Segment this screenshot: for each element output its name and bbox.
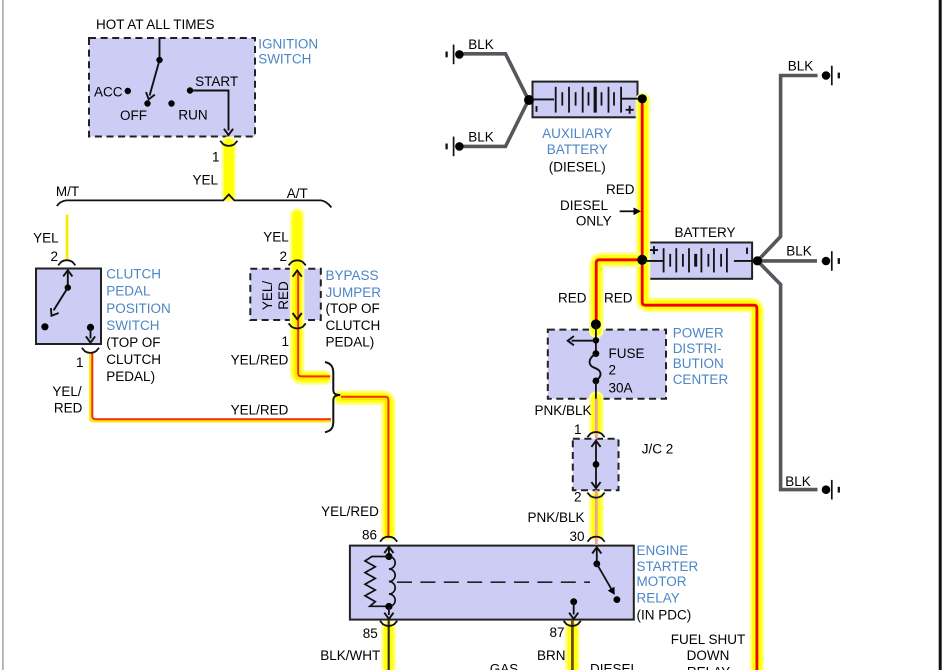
ignition switch box bbox=[89, 38, 255, 137]
fuse feed line bbox=[595, 324, 597, 353]
connector arc J/C 2 pin 1 bbox=[587, 432, 604, 437]
auxiliary battery negative terminal dot bbox=[524, 95, 534, 105]
svg-text:BLK: BLK bbox=[468, 129, 494, 144]
relay pin 30 line bbox=[596, 547, 598, 564]
svg-text:(TOP OF: (TOP OF bbox=[326, 301, 380, 316]
svg-text:ONLY: ONLY bbox=[576, 213, 612, 228]
relay armature dot bbox=[593, 560, 600, 567]
clutch pedal position switch box bbox=[36, 269, 101, 345]
svg-text:1: 1 bbox=[574, 422, 582, 437]
ignition switch OFF contact dot bbox=[144, 100, 150, 106]
svg-text:BLK: BLK bbox=[785, 474, 811, 489]
bypass jumper bottom arrowhead bbox=[293, 313, 302, 319]
svg-text:2: 2 bbox=[50, 249, 58, 264]
svg-text:OFF: OFF bbox=[120, 108, 147, 123]
svg-text:FUSE: FUSE bbox=[609, 346, 645, 361]
svg-text:BATTERY: BATTERY bbox=[547, 142, 608, 157]
svg-text:PEDAL): PEDAL) bbox=[326, 334, 375, 349]
svg-text:YEL/: YEL/ bbox=[260, 281, 275, 311]
battery plus sign bbox=[650, 246, 658, 254]
svg-text:1: 1 bbox=[76, 355, 84, 370]
fuse tap arrowhead left bbox=[568, 336, 574, 345]
wire: BRN from relay pin 87 bbox=[571, 620, 574, 670]
relay pin 87 arrowhead down bbox=[569, 613, 578, 619]
clutch switch pin 1 contact dot bbox=[87, 324, 94, 331]
connector arc clutch switch pin 2 bbox=[58, 260, 75, 265]
svg-text:M/T: M/T bbox=[56, 184, 79, 199]
relay armature arm bbox=[597, 564, 613, 591]
auxiliary battery box bbox=[533, 82, 638, 118]
connector arc bypass jumper pin 2 bbox=[289, 260, 306, 265]
highlight band: A/T YEL wire through bypass jumper bbox=[297, 216, 324, 378]
ground G2 (lower left) bbox=[447, 137, 464, 157]
wire: PNK/BLK fuse to J/C 2 bbox=[595, 399, 598, 439]
wire: A/T YEL/RED through bypass jumper, red strand bbox=[298, 272, 330, 376]
svg-text:MOTOR: MOTOR bbox=[637, 574, 687, 589]
highlight band: ignition output wire bbox=[222, 144, 237, 196]
svg-text:2: 2 bbox=[574, 489, 582, 504]
fuse element squiggle bbox=[590, 354, 601, 381]
svg-text:2: 2 bbox=[279, 249, 287, 264]
engine starter motor relay box bbox=[350, 546, 634, 620]
svg-text:START: START bbox=[195, 74, 238, 89]
clutch switch left contact dot bbox=[41, 323, 48, 330]
highlight band: relay pin 87 BRN wire bbox=[565, 628, 580, 670]
svg-text:POWER: POWER bbox=[673, 326, 724, 341]
svg-text:HOT AT ALL TIMES: HOT AT ALL TIMES bbox=[96, 17, 215, 32]
wire: ground G2 to auxiliary battery negative bbox=[464, 102, 528, 147]
wire: PNK/BLK J/C 2 to relay pin 30 bbox=[595, 490, 598, 545]
wire: battery positive to bottom right ground bbox=[758, 261, 818, 490]
battery negative lead bbox=[734, 260, 755, 262]
svg-text:DIESEL: DIESEL bbox=[590, 662, 639, 670]
clutch switch pin 2 arrowhead up bbox=[63, 270, 72, 276]
M/T A/T splice brace bbox=[57, 195, 332, 208]
bypass jumper box bbox=[250, 269, 320, 320]
wire: merged YEL/RED to relay pin 86, yellow strand bbox=[341, 399, 386, 538]
ignition switch movable arm bbox=[150, 63, 159, 96]
ground G1 (top left) bbox=[447, 45, 464, 65]
relay coil winding bumps bbox=[389, 557, 395, 607]
connector arc clutch switch pin 1 bbox=[82, 348, 99, 353]
svg-text:ACC: ACC bbox=[94, 85, 123, 100]
wire: merged YEL/RED to relay pin 86, red strand bbox=[341, 397, 388, 538]
connector arc relay pin 86 bbox=[380, 537, 397, 542]
junction connector J/C 2 box bbox=[573, 439, 619, 490]
connector arc relay pin 87 bbox=[564, 621, 581, 626]
auxiliary battery plus sign bbox=[626, 106, 634, 114]
ignition switch feed wire bbox=[159, 38, 161, 58]
svg-text:CLUTCH: CLUTCH bbox=[106, 352, 161, 367]
connector arc ignition pin 1 bbox=[220, 141, 237, 146]
DIESEL ONLY pointer arrowhead bbox=[634, 208, 642, 216]
highlight band: auxiliary battery RED wire down and right to fuel shutdown relay bbox=[643, 100, 757, 670]
bypass jumper top arrowhead bbox=[293, 271, 302, 277]
highlight band: merged YEL/RED wire to relay pin 86 bbox=[340, 398, 388, 534]
svg-text:PNK/BLK: PNK/BLK bbox=[534, 403, 591, 418]
battery plates bbox=[664, 248, 727, 272]
auxiliary battery positive terminal dot bbox=[638, 94, 647, 103]
highlight band: fuse output PNK/BLK to J/C 2 bbox=[589, 399, 604, 430]
svg-text:GAS: GAS bbox=[490, 662, 519, 670]
ground right middle bbox=[822, 251, 839, 271]
power distribution center box bbox=[548, 330, 666, 399]
fuse output line bbox=[595, 381, 597, 399]
ignition switch RUN contact dot bbox=[168, 100, 174, 106]
svg-text:BLK: BLK bbox=[788, 58, 814, 73]
ignition switch ACC contact dot bbox=[125, 88, 131, 94]
svg-text:(IN PDC): (IN PDC) bbox=[637, 607, 692, 622]
auxiliary battery plates bbox=[556, 87, 621, 113]
svg-text:RELAY: RELAY bbox=[687, 664, 730, 670]
clutch switch movable arm bbox=[54, 288, 68, 311]
battery box bbox=[647, 243, 752, 279]
svg-text:DOWN: DOWN bbox=[687, 648, 730, 663]
highlight band: relay pin 85 BLK/WHT wire bbox=[381, 628, 396, 670]
svg-text:YEL: YEL bbox=[33, 230, 59, 245]
wire: BLK/WHT from relay pin 85 bbox=[388, 620, 390, 670]
svg-text:JUMPER: JUMPER bbox=[326, 285, 382, 300]
wire: ground G1 to auxiliary battery negative bbox=[464, 54, 528, 99]
svg-text:BLK/WHT: BLK/WHT bbox=[320, 648, 380, 663]
svg-text:SWITCH: SWITCH bbox=[106, 318, 159, 333]
relay coil feed line bbox=[388, 547, 390, 557]
svg-text:BLK: BLK bbox=[786, 243, 812, 258]
relay coil resistor zigzag bbox=[365, 557, 389, 607]
svg-text:STARTER: STARTER bbox=[637, 559, 699, 574]
clutch switch arm arrowhead bbox=[48, 308, 59, 318]
wire: A/T YEL/RED through bypass jumper, yellow strand bbox=[296, 272, 330, 379]
fuse junction dot bbox=[591, 319, 601, 329]
svg-text:30A: 30A bbox=[609, 380, 633, 395]
ignition switch output arrowhead bbox=[224, 129, 233, 135]
svg-text:CLUTCH: CLUTCH bbox=[106, 267, 161, 282]
svg-text:YEL/: YEL/ bbox=[52, 384, 82, 399]
svg-text:BLK: BLK bbox=[468, 37, 494, 52]
auxiliary battery negative lead bbox=[531, 98, 554, 100]
svg-text:YEL: YEL bbox=[263, 230, 289, 245]
auxiliary battery minus tick bbox=[536, 106, 538, 112]
svg-text:PNK/BLK: PNK/BLK bbox=[527, 510, 584, 525]
svg-text:87: 87 bbox=[549, 625, 564, 640]
wire: YEL/RED from clutch switch pin 1, yellow strand bbox=[90, 353, 331, 421]
svg-text:BATTERY: BATTERY bbox=[674, 225, 735, 240]
clutch switch pin 1 wire bbox=[90, 327, 92, 338]
svg-text:RELAY: RELAY bbox=[637, 590, 680, 605]
relay divider dashed line bbox=[397, 581, 590, 583]
svg-text:YEL/RED: YEL/RED bbox=[231, 352, 289, 367]
svg-text:AUXILIARY: AUXILIARY bbox=[542, 126, 612, 141]
wire: battery positive to middle right ground bbox=[758, 259, 818, 263]
ground right top bbox=[822, 66, 839, 86]
relay coil bottom dot bbox=[385, 603, 392, 610]
ground right bottom bbox=[822, 480, 839, 500]
YEL/RED merge brace bbox=[325, 362, 340, 432]
fuse element bottom dot bbox=[593, 378, 600, 385]
relay armature arrowhead bbox=[608, 587, 618, 597]
svg-text:85: 85 bbox=[363, 626, 378, 641]
connector arc bypass jumper pin 1 bbox=[289, 323, 306, 328]
relay coil ground line bbox=[388, 607, 390, 616]
relay fixed contact dot bbox=[614, 596, 621, 603]
ignition switch START output wire bbox=[193, 91, 229, 131]
ignition switch rotor dot bbox=[156, 57, 162, 63]
svg-text:BYPASS: BYPASS bbox=[326, 268, 379, 283]
svg-text:86: 86 bbox=[362, 527, 377, 542]
auxiliary battery positive lead bbox=[621, 98, 640, 100]
relay coil top dot bbox=[385, 553, 392, 560]
svg-text:CLUTCH: CLUTCH bbox=[326, 318, 381, 333]
relay pin 87 line bbox=[573, 602, 575, 615]
svg-text:IGNITION: IGNITION bbox=[258, 37, 318, 52]
relay pin 30 arrowhead up bbox=[592, 547, 601, 553]
svg-text:CENTER: CENTER bbox=[673, 372, 729, 387]
svg-text:J/C 2: J/C 2 bbox=[642, 442, 674, 457]
wire: YEL stub M/T branch bbox=[66, 215, 69, 260]
fuse tap arrow line bbox=[572, 340, 596, 342]
clutch switch rotor dot bbox=[65, 284, 71, 290]
wire: RED branch battery to fuse junction bbox=[596, 260, 642, 322]
battery positive lead bbox=[644, 260, 664, 262]
svg-text:(TOP OF: (TOP OF bbox=[106, 335, 160, 350]
ignition switch arm arrowhead bbox=[144, 92, 155, 100]
page left border bbox=[2, 0, 4, 670]
fuse tap dot bbox=[593, 337, 599, 343]
svg-text:PEDAL: PEDAL bbox=[106, 284, 151, 299]
J/C 2 bottom arrowhead bbox=[591, 482, 600, 488]
connector arc relay pin 85 bbox=[380, 621, 397, 626]
svg-text:(DIESEL): (DIESEL) bbox=[549, 159, 606, 174]
svg-text:RUN: RUN bbox=[178, 108, 207, 123]
svg-text:BRN: BRN bbox=[537, 648, 566, 663]
fuse element top dot bbox=[593, 350, 600, 357]
J/C 2 splice dot bbox=[593, 461, 600, 468]
battery minus tick bbox=[746, 248, 748, 254]
wire: battery positive to top right ground bbox=[758, 76, 818, 261]
highlight band: RED branch from battery to fuse 2 bbox=[596, 260, 640, 331]
svg-text:FUEL SHUT: FUEL SHUT bbox=[671, 632, 746, 647]
clutch switch pin 1 arrowhead down bbox=[86, 336, 95, 342]
svg-text:SWITCH: SWITCH bbox=[258, 52, 311, 67]
battery negative terminal dot bbox=[753, 256, 762, 265]
highlight band: J/C 2 to relay pin 30 bbox=[589, 499, 604, 534]
J/C 2 top arrowhead bbox=[591, 441, 600, 447]
relay pin 87 dot bbox=[570, 598, 577, 605]
connector arc relay pin 30 bbox=[588, 537, 605, 542]
clutch switch pin 2 arrow line bbox=[67, 271, 69, 288]
relay pin 86 arrowhead up bbox=[384, 547, 393, 553]
svg-text:RED: RED bbox=[54, 400, 83, 415]
svg-text:1: 1 bbox=[281, 334, 289, 349]
wire: YEL/RED from clutch switch pin 1, red strand bbox=[92, 353, 331, 419]
svg-text:YEL: YEL bbox=[192, 172, 218, 187]
svg-text:BUTION: BUTION bbox=[673, 356, 724, 371]
wire: RED from auxiliary battery down, right to fuel shutdown relay bbox=[642, 99, 757, 670]
svg-text:DIESEL: DIESEL bbox=[560, 198, 609, 213]
svg-text:PEDAL): PEDAL) bbox=[106, 369, 155, 384]
page right border bbox=[939, 0, 942, 670]
svg-text:YEL/RED: YEL/RED bbox=[231, 402, 289, 417]
battery junction dot bbox=[637, 255, 647, 265]
svg-text:RED: RED bbox=[604, 290, 633, 305]
relay pin 85 arrowhead down bbox=[384, 613, 393, 619]
svg-text:1: 1 bbox=[212, 149, 220, 164]
svg-text:DISTRI-: DISTRI- bbox=[673, 341, 722, 356]
svg-text:RED: RED bbox=[558, 290, 587, 305]
svg-text:ENGINE: ENGINE bbox=[637, 543, 689, 558]
svg-text:30: 30 bbox=[569, 529, 584, 544]
ignition switch START contact dot bbox=[187, 87, 193, 93]
svg-text:POSITION: POSITION bbox=[106, 301, 171, 316]
svg-text:RED: RED bbox=[606, 182, 635, 197]
DIESEL ONLY pointer line bbox=[620, 210, 635, 212]
svg-text:RED: RED bbox=[276, 281, 291, 310]
svg-text:YEL/RED: YEL/RED bbox=[321, 504, 379, 519]
svg-text:2: 2 bbox=[609, 362, 617, 377]
svg-text:A/T: A/T bbox=[287, 186, 308, 201]
connector arc J/C 2 pin 2 bbox=[587, 493, 604, 498]
J/C 2 internal wire bbox=[595, 442, 597, 488]
